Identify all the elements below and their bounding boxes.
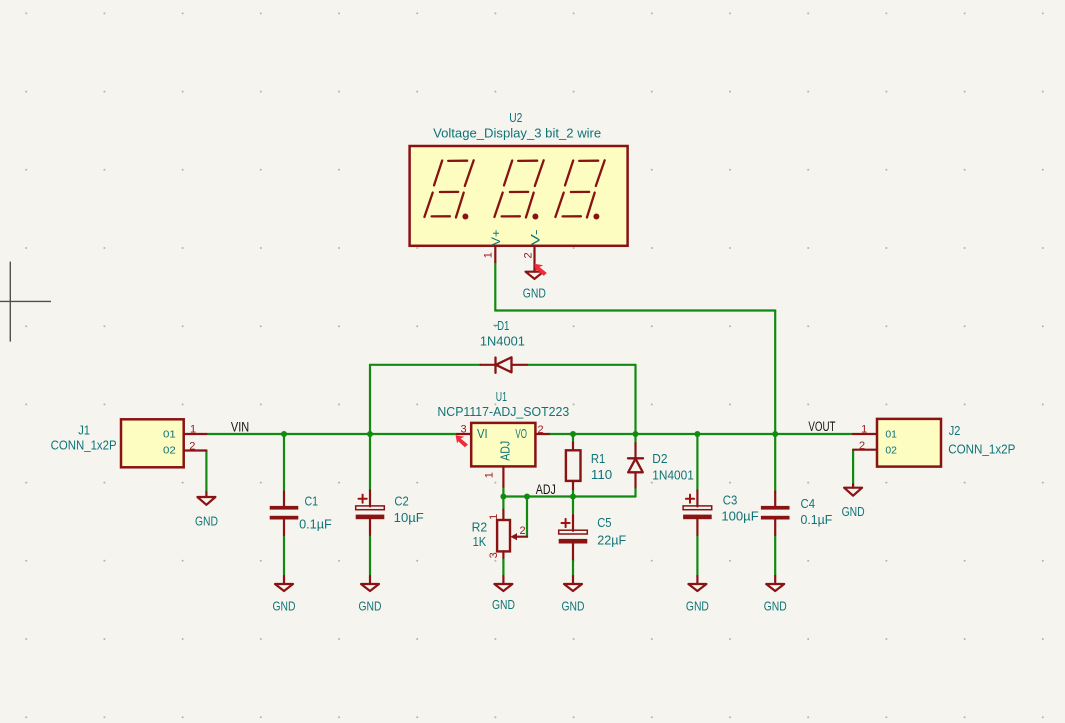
ground under C1 <box>275 576 293 591</box>
R2 reference <box>472 519 488 534</box>
ground under C5 <box>564 576 582 591</box>
svg-text:U2: U2 <box>509 110 522 125</box>
C3 value 100uF <box>721 509 758 524</box>
C3 reference <box>723 492 738 507</box>
svg-text:D1: D1 <box>497 318 509 333</box>
svg-text:J1: J1 <box>78 423 90 438</box>
svg-text:C2: C2 <box>394 493 408 508</box>
wire C4 bottom <box>774 535 776 576</box>
resistor R1 <box>566 443 581 490</box>
svg-text:GND: GND <box>842 505 865 519</box>
regulator U1 body <box>471 423 535 467</box>
svg-text:1: 1 <box>861 423 867 435</box>
ERC marker at U2 pin 2 <box>534 264 546 276</box>
svg-text:D2: D2 <box>652 451 667 466</box>
ground under C2 <box>361 576 379 591</box>
svg-text:C3: C3 <box>723 492 738 507</box>
U2 pin 1 V+ <box>483 229 504 262</box>
U2 digit 2 <box>494 160 543 219</box>
svg-text:VOUT: VOUT <box>808 419 835 434</box>
wire display pin1 branch <box>495 262 775 434</box>
D1 anchor tick <box>494 324 498 326</box>
svg-text:ADJ: ADJ <box>498 441 513 461</box>
wire D1 right horizontal <box>527 364 636 366</box>
potentiometer R2 <box>497 510 527 558</box>
ground under U2 pin 2 <box>526 271 544 279</box>
svg-text:1N4001: 1N4001 <box>480 333 525 348</box>
svg-text:1K: 1K <box>473 534 487 549</box>
C1 reference <box>305 493 319 508</box>
node VOUT-R1 junction <box>570 431 576 437</box>
wire C3 top <box>696 434 698 491</box>
diode D1 <box>481 357 527 373</box>
R2 pin 3 number <box>488 552 500 558</box>
wire R2 bottom <box>502 558 504 576</box>
C2 reference <box>394 493 408 508</box>
svg-text:Voltage_Display_3 bit_2 wire: Voltage_Display_3 bit_2 wire <box>433 125 601 140</box>
svg-text:10µF: 10µF <box>394 510 424 525</box>
capacitor C4 <box>761 492 790 536</box>
svg-text:01: 01 <box>885 430 897 441</box>
node VIN-C2-D1 junction <box>367 431 373 437</box>
J2 reference <box>949 423 961 438</box>
GND label C1 <box>273 599 296 613</box>
svg-text:NCP1117-ADJ_SOT223: NCP1117-ADJ_SOT223 <box>437 404 569 419</box>
svg-text:V+: V+ <box>489 229 503 246</box>
wire ADJ rail <box>503 495 635 497</box>
net label VOUT <box>808 419 835 434</box>
svg-text:ADJ: ADJ <box>536 482 556 497</box>
C4 value 0.1uF <box>801 512 833 527</box>
svg-text:3: 3 <box>460 423 466 435</box>
wire R2 wiper riser <box>526 497 528 537</box>
svg-text:1: 1 <box>488 514 500 520</box>
svg-text:110: 110 <box>591 467 612 482</box>
wire C5 bottom <box>572 559 574 577</box>
node VIN-C1 junction <box>281 431 287 437</box>
svg-text:GND: GND <box>195 514 218 528</box>
svg-text:C4: C4 <box>801 496 816 511</box>
svg-text:VI: VI <box>477 427 488 441</box>
wire R1 bottom <box>572 489 574 497</box>
wire C4 top <box>774 434 776 492</box>
J1 pin 2 <box>184 441 207 453</box>
D2 reference <box>652 451 667 466</box>
svg-text:0.1µF: 0.1µF <box>801 512 833 527</box>
U1 pin 3 VI <box>457 423 471 435</box>
ground under C3 <box>688 576 706 591</box>
GND label J2 <box>842 505 865 519</box>
wire D1 right riser <box>634 365 636 434</box>
U2 digit 3 <box>555 160 604 219</box>
svg-text:2: 2 <box>519 525 525 537</box>
svg-text:02: 02 <box>163 445 176 456</box>
ground under C4 <box>766 576 784 591</box>
diode D2 <box>628 434 643 488</box>
connector J2 body <box>877 419 941 467</box>
U2 value Voltage_Display_3 bit_2 wire <box>433 125 601 140</box>
node VOUT-C3 junction <box>694 431 700 437</box>
svg-text:GND: GND <box>523 287 546 301</box>
GND label J1 <box>195 514 218 528</box>
svg-text:0.1µF: 0.1µF <box>299 517 332 532</box>
C1 value 0.1uF <box>299 517 332 532</box>
wire VIN rail <box>206 433 457 435</box>
wire D2 bottom riser <box>634 488 636 497</box>
wire VOUT rail <box>549 433 853 435</box>
svg-text:U1: U1 <box>496 389 507 404</box>
GND label C4 <box>764 599 787 613</box>
svg-text:2: 2 <box>859 440 865 452</box>
J1 pin 1 <box>184 424 207 436</box>
U2 reference U2 <box>509 110 522 125</box>
U1 pin 2 VO <box>535 424 548 436</box>
capacitor C3 (polarized) <box>683 490 712 535</box>
J2 value CONN_1x2P <box>948 441 1015 456</box>
U1 reference <box>496 389 507 404</box>
svg-text:3: 3 <box>488 552 500 558</box>
J1 reference <box>78 423 90 438</box>
svg-text:2: 2 <box>537 424 543 436</box>
node VOUT-D1-D2 junction <box>633 431 639 437</box>
capacitor C5 (polarized) <box>559 515 588 560</box>
wire R1 top <box>572 434 574 443</box>
D2 value 1N4001 <box>652 467 694 482</box>
svg-text:VO: VO <box>515 427 527 441</box>
svg-text:GND: GND <box>764 599 787 613</box>
GND label C2 <box>359 599 382 613</box>
svg-text:CONN_1x2P: CONN_1x2P <box>948 441 1015 456</box>
R2 value 1K <box>473 534 487 549</box>
node ADJ-wiper junction <box>524 494 530 500</box>
C4 reference <box>801 496 816 511</box>
GND label U2 <box>523 287 546 301</box>
svg-text:R2: R2 <box>472 519 488 534</box>
R2 pin 1 number <box>488 514 500 520</box>
net label ADJ <box>536 482 556 497</box>
net label VIN <box>231 420 249 435</box>
svg-text:C1: C1 <box>305 493 319 508</box>
D1 reference <box>497 318 509 333</box>
svg-text:R1: R1 <box>591 451 605 466</box>
display U2 body <box>410 146 628 246</box>
U2 digit 1 <box>424 160 473 219</box>
GND label R2 <box>492 598 515 612</box>
wire C3 bottom <box>696 535 698 576</box>
R1 reference <box>591 451 605 466</box>
C5 value 22uF <box>597 533 626 548</box>
wire D1 left riser <box>369 365 371 434</box>
svg-text:V-: V- <box>529 229 543 246</box>
R2 pin 2 number <box>519 525 525 537</box>
svg-text:1: 1 <box>483 252 495 258</box>
ground under J2 <box>844 484 862 495</box>
wire C1 bottom <box>283 535 285 576</box>
svg-text:CONN_1x2P: CONN_1x2P <box>51 438 117 453</box>
svg-text:1: 1 <box>190 424 196 436</box>
svg-text:02: 02 <box>885 446 897 457</box>
wire J1 pin2 to GND <box>205 451 207 493</box>
GND label C5 <box>562 599 585 613</box>
ground under R2 <box>494 576 512 591</box>
C2 value 10uF <box>394 510 424 525</box>
svg-text:VIN: VIN <box>231 420 249 435</box>
wire C2 bottom <box>369 535 371 576</box>
svg-text:GND: GND <box>562 599 585 613</box>
U1 value NCP1117-ADJ_SOT223 <box>437 404 569 419</box>
svg-text:GND: GND <box>359 599 382 613</box>
wire D1 left horizontal <box>370 364 481 366</box>
wire C1 top <box>283 434 285 492</box>
svg-text:01: 01 <box>163 430 176 441</box>
C5 reference <box>597 515 611 530</box>
U1 pin 1 ADJ <box>484 466 504 486</box>
ground under J1 <box>197 492 215 505</box>
svg-text:22µF: 22µF <box>597 533 626 548</box>
wire R2 top <box>502 497 504 510</box>
svg-text:100µF: 100µF <box>721 509 758 524</box>
ERC marker at U1 pin 3 <box>456 435 468 447</box>
J2 pin 2 <box>853 440 877 452</box>
node VOUT-C4-display junction <box>772 431 778 437</box>
wire C2 top <box>369 434 371 491</box>
J2 pin 1 <box>853 423 877 435</box>
svg-text:J2: J2 <box>949 423 961 438</box>
wire U1 ADJ pin to rail <box>502 487 504 497</box>
node ADJ-U1 junction <box>500 494 506 500</box>
cursor crosshair <box>0 262 51 342</box>
svg-text:GND: GND <box>686 599 709 613</box>
U2 pin 2 V- <box>522 229 542 271</box>
svg-text:GND: GND <box>492 598 515 612</box>
capacitor C1 <box>270 492 299 536</box>
wire J2 pin2 to GND <box>852 450 854 485</box>
svg-text:C5: C5 <box>597 515 611 530</box>
R1 value 110 <box>591 467 612 482</box>
svg-text:2: 2 <box>522 252 534 258</box>
svg-text:1N4001: 1N4001 <box>652 467 694 482</box>
svg-text:GND: GND <box>273 599 296 613</box>
wire C5 top <box>572 497 574 514</box>
D1 value 1N4001 <box>480 333 525 348</box>
svg-text:1: 1 <box>484 472 496 478</box>
svg-text:2: 2 <box>189 441 195 453</box>
capacitor C2 (polarized) <box>356 490 385 535</box>
GND label C3 <box>686 599 709 613</box>
connector J1 body <box>121 419 184 467</box>
node ADJ-R1-C5 junction <box>570 494 576 500</box>
J1 value CONN_1x2P <box>51 438 117 453</box>
